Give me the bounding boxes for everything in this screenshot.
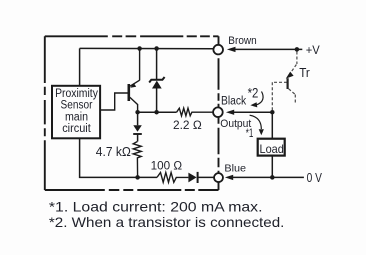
load box [258,139,285,156]
node dot zener-anode [154,110,159,115]
svg-text:Load: Load [260,142,284,156]
Q1 emitter arrow (PNP, pointing to base) [130,83,136,88]
node dot rail-zener [154,46,159,51]
wire load to 0V [271,156,273,178]
wire black external with arrow [226,110,234,115]
resistor R3 100 ohm [157,173,188,183]
svg-text:+V: +V [306,45,320,57]
node dot bottom rail [135,175,140,180]
transistor Q1 (PNP) [129,48,140,112]
wire top rail [80,47,214,49]
Tr emitter arrowhead [286,72,294,79]
wire down to load [271,112,273,138]
curved arrow for *1 [250,115,262,129]
resistor R1 2.2 ohm [177,108,214,116]
wire to blue terminal [198,176,215,178]
proximity sensor main circuit box U1 [52,86,100,139]
zener diode D1 [156,49,158,80]
wire rail down to sensor box [79,48,81,86]
svg-text:*2. When a transistor is conne: *2. When a transistor is connected. [49,214,285,230]
terminal Black [213,107,223,117]
svg-text:Sensor: Sensor [61,100,93,112]
svg-text:4.7 kΩ: 4.7 kΩ [96,144,131,159]
wire node row [138,111,177,113]
wire sensor box down to bottom rail [80,138,157,177]
node dot +V / Tr emitter [295,47,300,52]
diode D3 [188,173,196,183]
transistor Tr (external, dashed) [272,52,297,111]
svg-text:Black: Black [221,96,246,108]
curved arrow for *2 [257,92,264,105]
terminal Brown [213,45,223,55]
svg-text:100 Ω: 100 Ω [151,161,183,173]
sensor enclosure dash-dot border [45,36,219,190]
diode D2 [137,112,139,125]
node dot rail-emitter [137,46,142,51]
Tr base bar [287,78,289,89]
svg-text:*2: *2 [248,86,259,101]
node dot black/load [270,110,275,115]
wire brown external with arrow [227,47,236,52]
svg-text:Tr: Tr [299,66,310,80]
svg-text:circuit: circuit [62,123,91,135]
wire blue external with arrow [225,175,233,180]
svg-text:*1: *1 [246,128,254,140]
node dot 0V/load [270,175,275,180]
svg-text:Blue: Blue [224,162,246,174]
svg-text:Proximity: Proximity [55,88,98,100]
svg-text:main: main [65,111,88,123]
svg-text:*1. Load current: 200 mA max.: *1. Load current: 200 mA max. [49,198,263,214]
wire sensor base wire [100,93,128,110]
node dot collector [135,110,140,115]
resistor R2 4.7 kohm [133,142,141,178]
terminal Blue [214,173,223,182]
svg-text:Brown: Brown [228,35,256,47]
svg-text:0 V: 0 V [307,171,323,185]
svg-text:2.2 Ω: 2.2 Ω [173,120,202,132]
